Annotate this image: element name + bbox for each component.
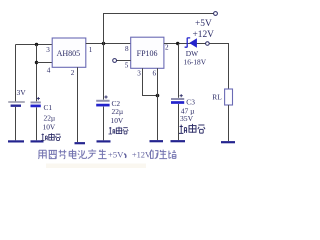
wire: C2 to ground (103, 107, 105, 141)
wire: pin 5 to terminal (117, 60, 131, 62)
wire: left rail vertical down to battery (15, 45, 17, 141)
capacitor C3 bottom plate (171, 101, 184, 104)
capacitor C3 top plate (171, 98, 184, 100)
svg-text:+5V: +5V (108, 150, 124, 160)
diode DW zener cathode bar (185, 38, 191, 48)
op-amp U1: IC AH805 box (52, 38, 86, 67)
capacitor C2 bottom plate (96, 104, 109, 107)
svg-text:RL: RL (212, 93, 222, 102)
svg-text:5: 5 (125, 62, 129, 70)
svg-text:2: 2 (165, 43, 169, 51)
capacitor C2 top plate (96, 100, 109, 102)
caption: Chinese text glyphs (38, 149, 106, 158)
svg-text:10V: 10V (43, 123, 56, 132)
svg-text:FP106: FP106 (137, 49, 158, 58)
svg-text:+5V: +5V (195, 19, 212, 29)
ground (pin 6) (150, 140, 164, 142)
wire: C3 to ground (178, 104, 180, 140)
svg-text:4: 4 (47, 66, 51, 74)
wire: U1 pin 1 to U2 pin 8 (86, 43, 131, 45)
wire: +5V branch vertical up (103, 14, 105, 44)
svg-text:3V: 3V (17, 88, 27, 97)
diode DW triangle (189, 38, 197, 48)
ground (RL) (221, 141, 235, 143)
svg-text:22µ: 22µ (112, 107, 124, 116)
terminal +12V (206, 42, 210, 46)
svg-text:2: 2 (71, 69, 75, 77)
node: junction pins 3-6 (156, 94, 160, 98)
wire: left rail horizontal from battery rail to U1 pin 3 (16, 44, 53, 46)
svg-text:6: 6 (153, 69, 157, 77)
svg-text:8: 8 (125, 45, 129, 53)
wire: pin 6 to ground (157, 68, 159, 140)
svg-text:+12V: +12V (132, 151, 151, 160)
wire: C2 branch vertical (103, 44, 105, 100)
svg-text:C1: C1 (44, 103, 53, 112)
node: junction at C3 branch (176, 42, 179, 45)
faint watermark (46, 164, 146, 169)
caption: Chinese glyphs (de dian lu) (151, 150, 177, 159)
wire: pin 4 of U1 (37, 62, 53, 64)
node: junction on rail at C1 branch (35, 43, 38, 46)
capacitor C3 plus mark (180, 94, 183, 97)
ground (C2) (97, 140, 111, 142)
capacitor C1 top plate (31, 101, 41, 103)
label tantalum cap (C3) glyphs (179, 124, 205, 133)
label tantalum cap (C2) glyphs (109, 127, 129, 134)
label tantalum cap (C1) glyphs (41, 133, 61, 140)
svg-text:+12V: +12V (193, 30, 215, 40)
op-amp U2: IC FP106 box (131, 37, 164, 68)
wire: C1 branch vertical (36, 45, 38, 141)
svg-text:16-18V: 16-18V (184, 57, 207, 66)
battery B1 3V top plate (8, 101, 25, 103)
wire: C3 branch vertical (178, 44, 180, 98)
wire: right rail down to RL (228, 44, 230, 90)
ground (U1 pin 2) (75, 142, 86, 144)
svg-text:35V: 35V (180, 114, 194, 123)
resistor RL box (225, 89, 233, 105)
svg-text:3: 3 (137, 69, 141, 77)
svg-text:3: 3 (46, 46, 50, 54)
ground (C1) (31, 140, 44, 142)
caption: enum comma (124, 154, 126, 158)
wire: U2 pin 2 rail to right (164, 43, 229, 45)
node: junction at +5V branch (102, 42, 105, 45)
svg-text:22µ: 22µ (44, 114, 56, 123)
node: junction at pin 4 wire (35, 61, 38, 64)
capacitor C1 bottom plate (31, 105, 41, 108)
ground (battery) (8, 140, 24, 142)
terminal +5V (214, 12, 218, 16)
battery B1 3V bottom plate (11, 104, 21, 106)
svg-text:C3: C3 (186, 97, 195, 106)
terminal pin5 (113, 59, 117, 63)
wire: RL to ground (228, 105, 230, 141)
capacitor C1 plus mark (37, 97, 40, 100)
svg-text:10V: 10V (111, 116, 124, 125)
svg-text:1: 1 (89, 46, 93, 54)
svg-text:AH805: AH805 (57, 49, 81, 58)
wire: U1 pin 2 to ground (77, 67, 79, 142)
capacitor C2 plus mark (104, 95, 107, 98)
ground (C3) (171, 140, 186, 142)
wire: +5V top rail (103, 13, 214, 15)
wire: pin 3 down and right (143, 68, 158, 95)
